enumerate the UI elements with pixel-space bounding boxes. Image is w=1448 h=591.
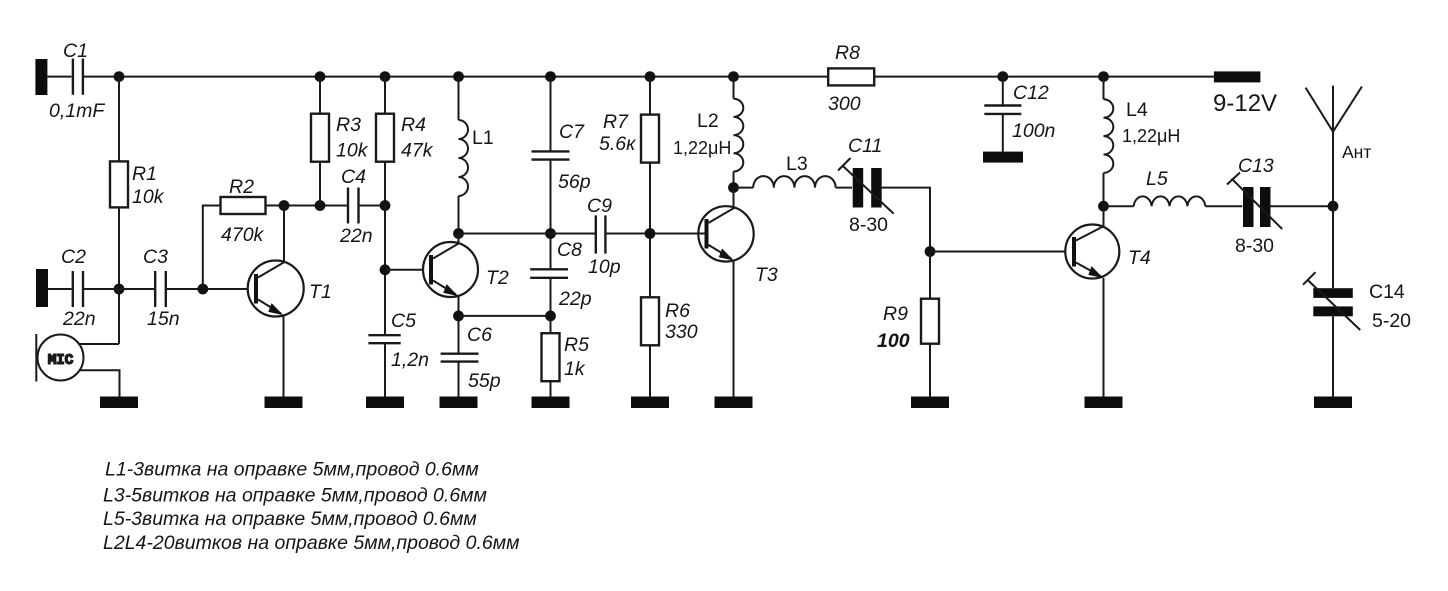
svg-text:5-20: 5-20 xyxy=(1372,310,1411,332)
node rail L4 xyxy=(1098,71,1109,82)
wire R7 top lead xyxy=(649,77,651,115)
wire T2 collector bus to C9 xyxy=(459,233,596,235)
svg-text:L3: L3 xyxy=(786,153,808,175)
resistor R7 xyxy=(641,115,659,163)
wire base node to T4 xyxy=(930,251,1066,253)
inductor L1 xyxy=(459,120,469,196)
svg-text:L5-3витка на оправке 5мм,прово: L5-3витка на оправке 5мм,провод 0.6мм xyxy=(103,508,477,530)
node rail R4 xyxy=(380,71,391,82)
wire R9 bottom lead xyxy=(929,344,931,397)
wire T1 emitter xyxy=(283,315,285,396)
wire T4 collector xyxy=(1103,206,1105,226)
wire C4 right lead xyxy=(360,205,386,207)
svg-text:470k: 470k xyxy=(221,224,265,246)
wire R1 bottom lead to C2-C3 node xyxy=(118,207,120,344)
inductor L3 xyxy=(753,176,835,188)
svg-text:R3: R3 xyxy=(336,114,361,136)
ground R5 xyxy=(532,397,570,409)
wire R4 bottom lead xyxy=(384,162,386,206)
wire T3 emitter xyxy=(733,261,735,397)
capacitor C3 xyxy=(154,271,156,307)
svg-text:C6: C6 xyxy=(467,324,492,346)
svg-text:T1: T1 xyxy=(309,281,332,303)
capacitor C12 xyxy=(984,104,1021,106)
svg-text:L4: L4 xyxy=(1126,99,1148,121)
ground C14 xyxy=(1314,397,1352,409)
node T4 base R9 xyxy=(925,246,936,257)
wire C13 to antenna xyxy=(1271,205,1334,207)
resistor R9 xyxy=(929,252,931,299)
wire xyxy=(84,288,155,290)
svg-text:R1: R1 xyxy=(132,163,157,185)
node rail R3 xyxy=(315,71,326,82)
wire R3 top lead xyxy=(319,77,321,114)
wire R5 bottom lead xyxy=(550,381,552,396)
svg-text:R5: R5 xyxy=(564,334,589,356)
svg-text:MIC: MIC xyxy=(48,353,73,369)
trimmer capacitor C11 xyxy=(853,168,864,208)
wire R1 top lead xyxy=(118,77,120,162)
svg-text:56p: 56p xyxy=(558,171,591,193)
resistor R1 xyxy=(110,161,128,207)
svg-text:T4: T4 xyxy=(1128,247,1151,269)
svg-text:300: 300 xyxy=(828,93,861,115)
wire C14 bottom lead xyxy=(1332,316,1334,396)
transistor T4 xyxy=(1065,225,1119,279)
svg-text:1,2n: 1,2n xyxy=(391,349,429,371)
node L4 T4 collector xyxy=(1098,201,1109,212)
wire L2 top lead xyxy=(733,77,735,99)
wire L2 bottom lead xyxy=(733,172,735,188)
wire T3 collector xyxy=(733,188,735,208)
trimmer capacitor C13 xyxy=(1243,187,1254,227)
node rail R7 xyxy=(645,71,656,82)
node rail L2 xyxy=(728,71,739,82)
svg-text:Ант: Ант xyxy=(1342,142,1371,162)
ground R6 xyxy=(631,397,669,409)
svg-text:C8: C8 xyxy=(557,239,582,261)
svg-text:22p: 22p xyxy=(558,288,592,310)
node R3 bottom xyxy=(315,200,326,211)
svg-text:10k: 10k xyxy=(132,186,165,208)
wire T2 emitter to R5 xyxy=(459,315,551,317)
svg-text:10k: 10k xyxy=(336,140,369,162)
capacitor C4 xyxy=(347,188,349,224)
svg-text:C12: C12 xyxy=(1013,82,1049,104)
svg-text:L1-3витка на оправке 5мм,прово: L1-3витка на оправке 5мм,провод 0.6мм xyxy=(105,459,479,481)
resistor R3 xyxy=(311,114,329,162)
svg-text:5.6к: 5.6к xyxy=(599,133,636,155)
ground C6 xyxy=(440,397,478,409)
ground R9 xyxy=(911,397,949,409)
power terminal block 9-12V xyxy=(1214,71,1261,82)
wire C7 bottom lead xyxy=(550,160,552,270)
wire T4 emitter xyxy=(1103,278,1105,397)
wire L5 left lead xyxy=(1104,205,1134,207)
svg-text:C14: C14 xyxy=(1369,281,1405,303)
wire R2 left lead xyxy=(203,206,221,290)
node L2 T3 collector xyxy=(728,182,739,193)
svg-text:22n: 22n xyxy=(339,225,373,247)
svg-text:C11: C11 xyxy=(848,135,882,157)
wire xyxy=(47,76,71,78)
svg-text:L2: L2 xyxy=(697,110,719,132)
node L1 T2 collector xyxy=(453,228,464,239)
battery terminal block top left xyxy=(35,59,47,95)
wire L1 bottom lead xyxy=(458,196,460,234)
microphone MIC xyxy=(38,335,84,381)
svg-text:100n: 100n xyxy=(1012,120,1055,142)
wire L5 to C13 xyxy=(1205,205,1242,207)
wire L3 to C11 xyxy=(836,187,852,189)
wire R3 bottom lead xyxy=(319,162,321,206)
wire C12 bottom lead xyxy=(1002,114,1004,152)
wire C5 bottom lead xyxy=(384,343,386,396)
svg-text:R4: R4 xyxy=(401,114,426,136)
resistor R5 xyxy=(542,333,560,381)
svg-text:55p: 55p xyxy=(468,370,501,392)
wire C11 to T4 base node xyxy=(882,188,930,252)
wire L4 top lead xyxy=(1103,77,1105,100)
svg-text:C1: C1 xyxy=(63,40,88,62)
svg-text:L1: L1 xyxy=(472,127,494,149)
wire R2 right lead to mid bus xyxy=(266,205,348,207)
wire mic bottom lead xyxy=(80,370,120,396)
svg-text:1,22μН: 1,22μН xyxy=(673,138,731,158)
ground C5 xyxy=(366,397,404,409)
ground T4 xyxy=(1085,397,1123,409)
inductor L2 xyxy=(734,99,744,172)
node C4 R4 xyxy=(380,200,391,211)
svg-text:22n: 22n xyxy=(62,308,96,330)
wire R7 bottom lead xyxy=(649,163,651,298)
wire C6 bottom lead xyxy=(458,362,460,397)
svg-text:1k: 1k xyxy=(564,358,586,380)
transistor T3 xyxy=(698,206,753,261)
trimmer capacitor C14 xyxy=(1313,288,1353,298)
svg-text:8-30: 8-30 xyxy=(849,214,888,236)
svg-text:C3: C3 xyxy=(143,246,168,268)
ground mic xyxy=(100,397,138,409)
node rail C12 xyxy=(997,71,1008,82)
svg-text:8-30: 8-30 xyxy=(1235,235,1274,257)
capacitor C9 xyxy=(595,215,597,253)
ground T3 xyxy=(715,397,753,409)
svg-text:R6: R6 xyxy=(665,300,690,322)
capacitor C6 xyxy=(441,353,479,355)
svg-text:C5: C5 xyxy=(391,310,416,332)
battery terminal block mid left xyxy=(36,269,48,307)
resistor R8 xyxy=(828,68,874,85)
wire mic top lead xyxy=(78,343,119,345)
wire R6 bottom lead xyxy=(649,345,651,396)
wire C7 top lead xyxy=(550,77,552,152)
svg-text:L3-5витков на оправке 5мм,пров: L3-5витков на оправке 5мм,провод 0.6мм xyxy=(103,485,487,507)
wire T2 emitter xyxy=(458,296,460,353)
svg-text:0,1mF: 0,1mF xyxy=(49,100,105,122)
inductor L4 xyxy=(1104,99,1114,173)
wire L3 left lead xyxy=(734,187,754,189)
svg-text:9-12V: 9-12V xyxy=(1213,90,1277,117)
antenna Ант xyxy=(1332,132,1334,207)
svg-text:1,22μН: 1,22μН xyxy=(1122,126,1180,146)
wire T1 collector xyxy=(283,206,285,262)
wire top rail left of R8 xyxy=(84,76,828,78)
transistor T2 xyxy=(423,242,478,297)
capacitor C2 xyxy=(72,271,74,307)
wire R4 top lead xyxy=(384,77,386,114)
resistor R6 xyxy=(641,297,659,345)
svg-text:C13: C13 xyxy=(1238,155,1274,177)
wire C3 to T1 base xyxy=(167,288,248,290)
wire R4 node down to C5 xyxy=(384,206,386,336)
svg-text:R9: R9 xyxy=(883,303,908,325)
svg-text:R8: R8 xyxy=(835,42,860,64)
svg-text:10p: 10p xyxy=(588,256,621,278)
svg-text:T2: T2 xyxy=(486,267,509,289)
node C2 C3 junction xyxy=(114,284,125,295)
svg-text:15n: 15n xyxy=(147,308,180,330)
wire C12 top lead xyxy=(1002,77,1004,106)
wire top rail right of R8 xyxy=(874,76,1214,78)
capacitor C5 xyxy=(368,334,400,336)
capacitor C7 xyxy=(532,150,570,152)
node T3 base xyxy=(645,228,656,239)
svg-text:L2L4-20витков на оправке 5мм,п: L2L4-20витков на оправке 5мм,провод 0.6м… xyxy=(103,532,519,554)
svg-text:C4: C4 xyxy=(341,166,366,188)
ground C12 xyxy=(983,152,1023,163)
node C7 C8 C9 xyxy=(545,228,556,239)
node rail R1 xyxy=(114,71,125,82)
svg-text:C7: C7 xyxy=(559,121,585,143)
wire T2 collector xyxy=(458,234,460,244)
resistor R4 xyxy=(376,114,394,162)
transistor T1 xyxy=(248,261,304,317)
wire antenna node to C14 xyxy=(1332,206,1334,288)
wire T2 base xyxy=(385,269,423,271)
svg-text:R7: R7 xyxy=(603,111,629,133)
wire L1 top lead xyxy=(458,77,460,120)
node T2 base xyxy=(380,264,391,275)
node T2 emitter xyxy=(453,311,464,322)
svg-text:C2: C2 xyxy=(61,246,86,268)
node R2 left leg xyxy=(197,284,208,295)
svg-text:C9: C9 xyxy=(587,195,612,217)
wire xyxy=(48,288,72,290)
node T1 collector xyxy=(279,200,290,211)
svg-text:330: 330 xyxy=(665,321,698,343)
ground T1 xyxy=(265,397,303,409)
svg-text:100: 100 xyxy=(877,330,910,352)
wire L4 bottom lead xyxy=(1103,173,1105,206)
capacitor C8 xyxy=(530,268,568,270)
node rail L1 xyxy=(453,71,464,82)
capacitor C1 xyxy=(72,59,74,95)
node antenna xyxy=(1328,201,1339,212)
svg-text:R2: R2 xyxy=(229,176,254,198)
node rail C7 xyxy=(545,71,556,82)
inductor L5 xyxy=(1134,196,1206,206)
svg-text:47k: 47k xyxy=(401,140,434,162)
node R5 top xyxy=(545,311,556,322)
wire C9 right lead xyxy=(606,233,705,235)
svg-text:L5: L5 xyxy=(1146,168,1168,190)
svg-text:T3: T3 xyxy=(755,264,778,286)
resistor R2 xyxy=(221,197,266,214)
wire C8 bottom lead xyxy=(550,278,552,333)
